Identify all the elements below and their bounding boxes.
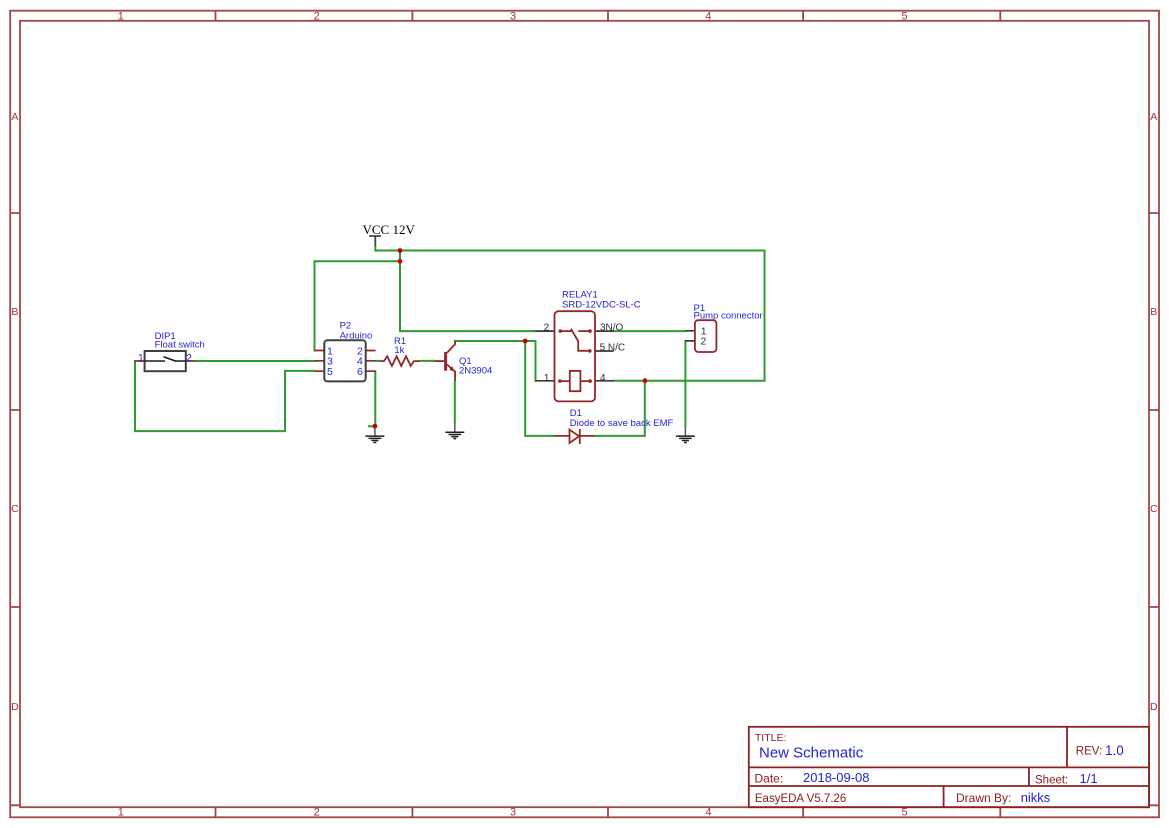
svg-text:New Schematic: New Schematic xyxy=(759,745,864,762)
svg-text:1k: 1k xyxy=(394,345,404,356)
svg-text:2N3904: 2N3904 xyxy=(459,365,492,376)
svg-text:3: 3 xyxy=(510,10,516,22)
svg-text:A: A xyxy=(1150,111,1157,123)
svg-text:Pump connector: Pump connector xyxy=(694,310,763,321)
svg-text:A: A xyxy=(11,111,18,123)
svg-text:C: C xyxy=(11,503,19,515)
svg-text:2: 2 xyxy=(314,10,320,22)
svg-text:5: 5 xyxy=(901,10,907,22)
svg-text:2: 2 xyxy=(701,336,707,348)
svg-text:2: 2 xyxy=(186,353,192,364)
svg-text:3: 3 xyxy=(510,806,516,818)
svg-text:1/1: 1/1 xyxy=(1080,771,1098,786)
svg-text:Arduino: Arduino xyxy=(340,330,373,341)
svg-text:C: C xyxy=(1150,503,1158,515)
svg-text:D: D xyxy=(1150,701,1158,713)
svg-text:2: 2 xyxy=(544,323,550,334)
svg-text:D: D xyxy=(11,701,19,713)
svg-text:B: B xyxy=(11,306,18,318)
svg-text:1: 1 xyxy=(118,806,124,818)
svg-text:B: B xyxy=(1150,306,1157,318)
svg-text:Diode to save back EMF: Diode to save back EMF xyxy=(570,418,674,429)
svg-text:5 N/C: 5 N/C xyxy=(600,342,626,353)
svg-text:4: 4 xyxy=(600,373,606,384)
svg-text:Float switch: Float switch xyxy=(155,340,205,351)
svg-text:Sheet:: Sheet: xyxy=(1035,774,1068,786)
svg-text:3N/O: 3N/O xyxy=(600,322,624,333)
svg-text:2018-09-08: 2018-09-08 xyxy=(803,770,870,785)
svg-text:2: 2 xyxy=(314,806,320,818)
svg-text:SRD-12VDC-SL-C: SRD-12VDC-SL-C xyxy=(562,299,641,310)
svg-text:Drawn By:: Drawn By: xyxy=(956,791,1011,805)
svg-text:4: 4 xyxy=(705,10,711,22)
svg-text:TITLE:: TITLE: xyxy=(755,732,787,744)
svg-text:5: 5 xyxy=(327,366,333,378)
svg-text:1: 1 xyxy=(118,10,124,22)
svg-text:6: 6 xyxy=(357,366,363,378)
svg-text:EasyEDA V5.7.26: EasyEDA V5.7.26 xyxy=(755,793,846,805)
svg-text:nikks: nikks xyxy=(1021,790,1051,805)
svg-text:1: 1 xyxy=(138,353,144,364)
svg-text:4: 4 xyxy=(705,806,711,818)
svg-text:VCC 12V: VCC 12V xyxy=(363,222,416,237)
svg-text:1.0: 1.0 xyxy=(1105,743,1124,758)
svg-text:REV:: REV: xyxy=(1076,746,1102,758)
svg-text:1: 1 xyxy=(544,373,550,384)
svg-text:Date:: Date: xyxy=(755,771,784,785)
